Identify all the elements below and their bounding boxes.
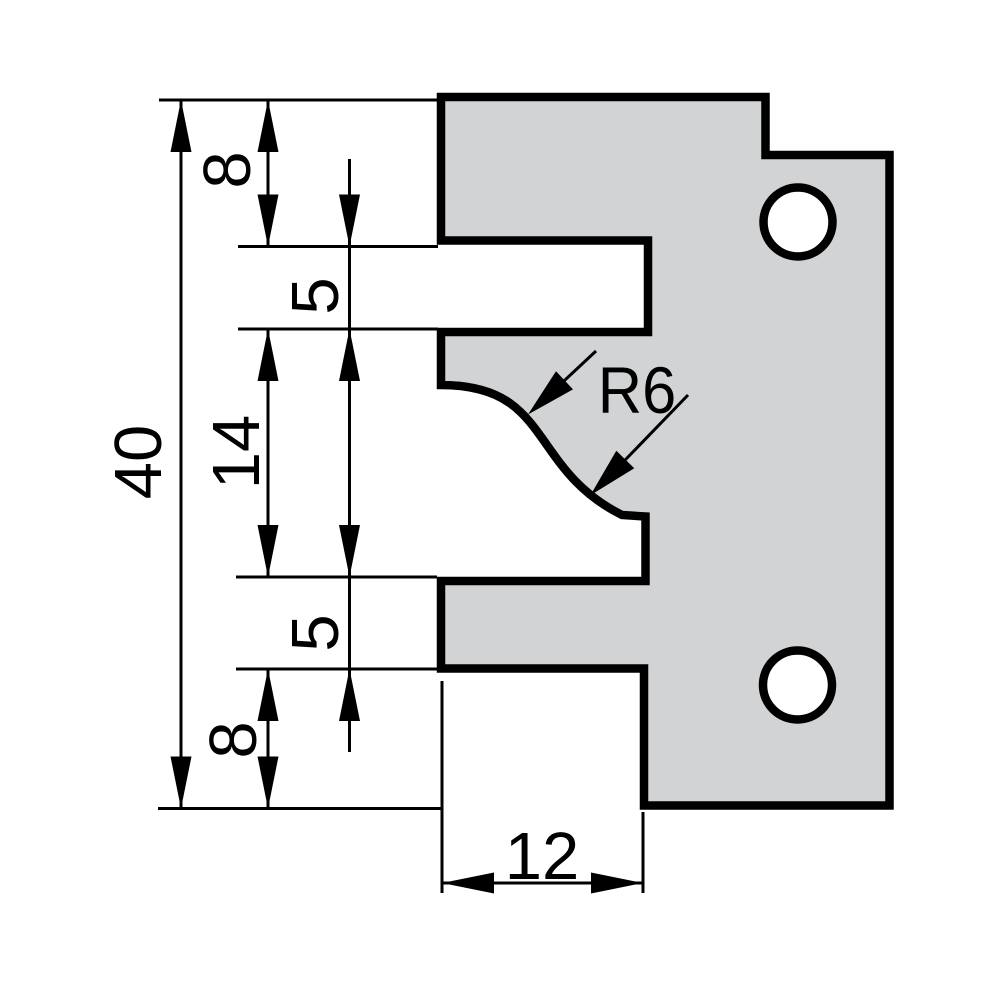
profile plate outline: [441, 97, 890, 806]
arrow 5top down: [339, 195, 360, 247]
svg-text:8: 8: [190, 151, 265, 188]
extension line 3 (y=329): [238, 328, 438, 331]
arrow 5bot down: [339, 525, 360, 577]
dimension 5 shared shaft: [348, 159, 351, 752]
extension line 5 (y=669): [236, 668, 437, 671]
extension line 2 (y=246.5): [238, 245, 438, 248]
extension line top (y=100): [159, 99, 441, 102]
arrow 8bot up: [258, 669, 279, 721]
dimension 14 line: [267, 329, 270, 577]
svg-text:40: 40: [101, 425, 176, 500]
svg-text:R6: R6: [598, 353, 676, 428]
arrow 5top up: [339, 329, 360, 381]
hole bottom: [763, 651, 832, 720]
svg-text:12: 12: [505, 819, 580, 894]
svg-text:8: 8: [196, 721, 271, 758]
extension line 12 left: [441, 681, 444, 893]
dimension 40 line: [180, 100, 183, 809]
dimension 8 bottom line: [267, 669, 270, 809]
arrow 40 bottom: [171, 757, 192, 809]
dimension 8 top line: [267, 100, 270, 247]
hole top: [764, 188, 833, 257]
arrow 8top down: [258, 195, 279, 247]
arrow 12 left: [442, 873, 494, 894]
leader R6 upper: [534, 351, 596, 409]
arrow 12 right: [591, 873, 643, 894]
arrow 40 top: [171, 100, 192, 152]
arrow 8top up: [258, 100, 279, 152]
svg-text:5: 5: [278, 614, 353, 651]
arrow 5bot up: [339, 669, 360, 721]
arrow 8bot down: [258, 757, 279, 809]
svg-text:5: 5: [278, 277, 353, 314]
extension line bottom (y=807): [158, 807, 442, 810]
arrow 14 down: [258, 525, 279, 577]
leader R6 lower: [600, 395, 688, 486]
extension line 4 (y=577): [236, 576, 437, 579]
extension line 12 right: [642, 812, 645, 893]
arrow 14 up: [258, 329, 279, 381]
dimension 12 line: [442, 882, 643, 885]
svg-text:14: 14: [199, 415, 274, 490]
